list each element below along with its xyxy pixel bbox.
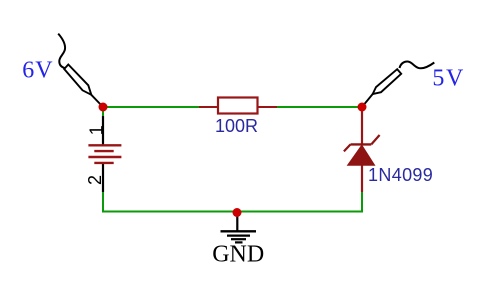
probe 5V [362, 61, 465, 107]
svg-text:100R: 100R [215, 116, 258, 136]
battery pin number 1 [86, 125, 106, 135]
wire left stub (node A down to battery pin) [102, 107, 104, 117]
node A junction dot [99, 103, 108, 112]
svg-text:1N4099: 1N4099 [368, 165, 433, 185]
battery pin number 2 [85, 175, 105, 185]
svg-text:5V: 5V [432, 66, 465, 92]
ground [212, 214, 264, 267]
node B junction dot [358, 103, 367, 112]
ground node junction dot [233, 208, 242, 217]
wire top-left (node A to resistor) [103, 106, 200, 108]
svg-text:6V: 6V [22, 57, 53, 83]
svg-text:GND: GND [212, 241, 264, 267]
resistor 100R [199, 98, 277, 136]
wire bottom-left (battery to ground node) [103, 192, 237, 212]
battery [88, 116, 121, 192]
wire top-right (resistor to node B) [277, 106, 363, 108]
svg-text:1: 1 [86, 125, 106, 135]
zener diode 1N4099 [344, 107, 433, 192]
wire bottom-right (ground node to zener) [237, 192, 362, 212]
svg-text:2: 2 [85, 175, 105, 185]
probe 6V [22, 34, 103, 107]
